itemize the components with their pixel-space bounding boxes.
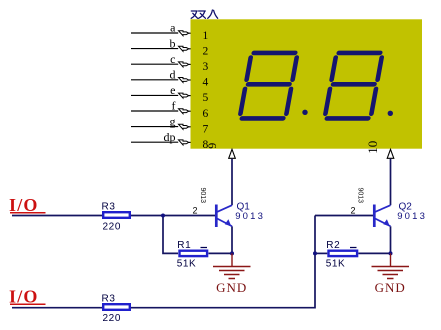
svg-text:5: 5: [203, 92, 209, 104]
svg-text:R1: R1: [177, 240, 191, 251]
svg-text:3: 3: [203, 61, 209, 73]
svg-text:9013: 9013: [397, 211, 427, 222]
svg-text:1: 1: [203, 30, 209, 42]
svg-text:R3: R3: [102, 202, 116, 213]
svg-text:2: 2: [351, 206, 356, 216]
svg-text:f: f: [172, 99, 176, 113]
svg-text:9013: 9013: [199, 188, 206, 204]
svg-text:4: 4: [203, 77, 209, 89]
svg-text:GND: GND: [216, 280, 247, 295]
svg-text:10: 10: [365, 141, 380, 154]
svg-text:220: 220: [103, 313, 122, 324]
svg-text:R3: R3: [102, 294, 116, 305]
svg-text:e: e: [170, 83, 175, 97]
svg-text:51K: 51K: [326, 259, 346, 270]
svg-text:7: 7: [203, 123, 209, 135]
svg-text:6: 6: [203, 108, 209, 120]
svg-text:9013: 9013: [235, 211, 265, 222]
svg-text:9: 9: [205, 143, 219, 149]
svg-text:GND: GND: [375, 280, 406, 295]
svg-text:2: 2: [193, 206, 198, 216]
svg-text:9013: 9013: [357, 188, 364, 204]
svg-text:c: c: [170, 52, 175, 66]
svg-text:g: g: [170, 114, 176, 128]
svg-text:51K: 51K: [177, 259, 197, 270]
svg-text:R2: R2: [326, 240, 340, 251]
svg-text:a: a: [170, 21, 176, 35]
svg-text:d: d: [170, 68, 176, 82]
svg-text:2: 2: [203, 45, 209, 57]
svg-text:dp: dp: [164, 130, 176, 144]
svg-text:b: b: [170, 36, 176, 50]
svg-text:220: 220: [103, 222, 122, 233]
